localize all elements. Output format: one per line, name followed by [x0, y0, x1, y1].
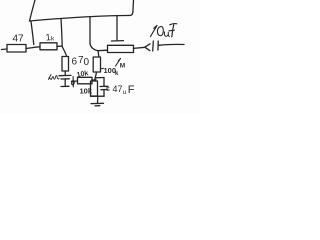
resistor R1 47 — [2, 45, 34, 53]
wire node C to R5 — [97, 51, 100, 57]
wire node B to R3 — [62, 47, 66, 57]
svg-text:0: 0 — [84, 57, 90, 68]
svg-text:47: 47 — [13, 34, 25, 45]
svg-text:F: F — [128, 84, 135, 96]
label R5 value 100k — [101, 67, 104, 70]
label P1 value 1M — [116, 59, 121, 67]
resistor R3 670 (vertical) — [62, 57, 69, 72]
svg-text:M: M — [120, 63, 125, 70]
wire R5 to node D rail — [95, 72, 97, 81]
resistor R4 10k (horizontal) — [72, 77, 97, 84]
capacitor C1 under R3 — [59, 71, 71, 87]
node junction cross near C1 — [72, 77, 75, 88]
capacitor C3 10uF — [153, 41, 184, 51]
wire node D branch to C2 — [95, 77, 104, 79]
wire bottom node E — [91, 95, 105, 97]
wire curve to node C — [90, 44, 108, 51]
op-amp U1 (large box, top) — [30, 0, 134, 21]
svg-text:10k: 10k — [80, 87, 93, 96]
resistor R5 100k (vertical) — [93, 57, 100, 72]
svg-text:k: k — [51, 36, 55, 43]
potentiometer P1 body 1M — [108, 45, 146, 52]
wire pin3 U1 down — [89, 17, 91, 44]
resistor R2 1k — [34, 43, 62, 50]
label C1 value — [49, 75, 60, 80]
capacitor C2 47uF — [100, 78, 108, 97]
svg-text:47: 47 — [113, 84, 123, 94]
potentiometer P1 wiper from U1 pin4 — [112, 16, 124, 42]
svg-text:u: u — [123, 89, 127, 96]
resistor R6 10k (vertical) — [91, 81, 98, 96]
svg-text:k: k — [115, 71, 119, 77]
wire pin1 U1 to node A — [31, 22, 34, 45]
ground GND1 — [91, 103, 104, 106]
arrowhead on wire to C3 — [145, 44, 150, 51]
wire pin2 U1 to node B — [61, 19, 62, 47]
svg-text:6: 6 — [72, 57, 78, 68]
tick near C2 — [107, 88, 110, 91]
label C3 value 10uF — [151, 26, 158, 37]
